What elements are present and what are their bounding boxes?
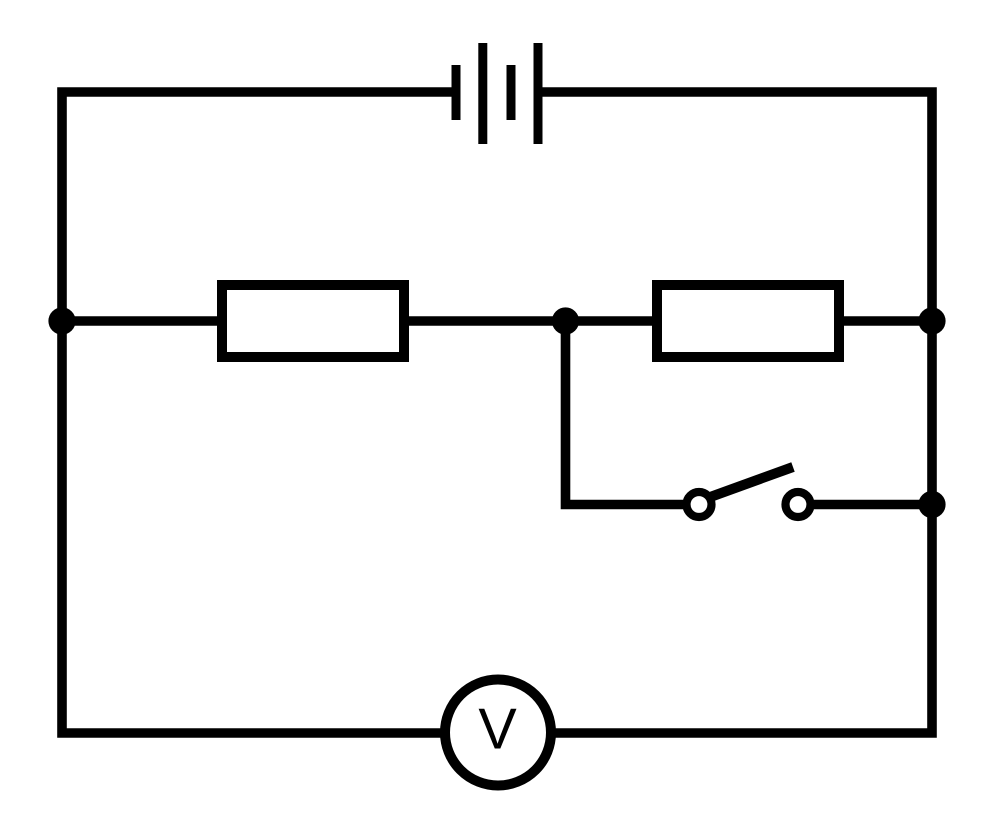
wire middle center segment (408, 316, 653, 326)
switch S1 left terminal (687, 492, 712, 517)
svg-text:V: V (478, 698, 517, 762)
switch S1 lever (702, 467, 793, 500)
voltmeter V1 body (445, 680, 551, 786)
wire outer loop (top right, right rail, bottom, left rail, top left) (62, 92, 932, 733)
node C (right rail / middle wire junction) (918, 307, 945, 334)
switch S1 right terminal (786, 492, 811, 517)
node A (left rail / middle wire junction) (48, 307, 75, 334)
battery B1 (452, 43, 543, 144)
wire middle right segment (843, 316, 932, 326)
wire switch branch (down from node B then right) (566, 321, 685, 505)
node B (middle wire / switch branch junction) (552, 307, 579, 334)
resistor R2 (657, 285, 839, 357)
wire switch to right rail (812, 500, 932, 510)
node D (right rail / switch wire junction) (918, 491, 945, 518)
wire middle left segment (62, 316, 218, 326)
resistor R1 (222, 285, 404, 357)
